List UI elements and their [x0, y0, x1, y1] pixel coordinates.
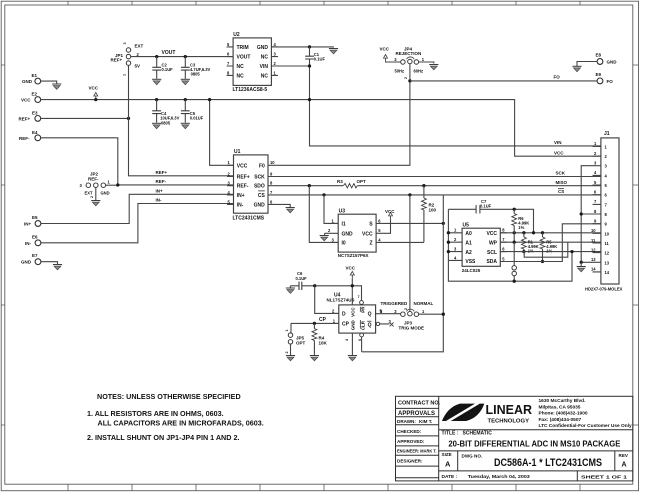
capacitor C7 — [448, 199, 533, 233]
junction WP R6 — [513, 241, 516, 244]
junction VIN VCC rail — [308, 98, 311, 101]
svg-text:0.1UF: 0.1UF — [480, 204, 492, 209]
svg-text:REJECTION: REJECTION — [396, 51, 422, 56]
ground E1 — [52, 84, 61, 89]
svg-text:1: 1 — [123, 74, 127, 76]
svg-text:TRIG MODE: TRIG MODE — [399, 326, 425, 331]
svg-text:2. INSTALL SHUNT ON JP1-JP4 P: 2. INSTALL SHUNT ON JP1-JP4 PIN 1 AND 2. — [87, 433, 239, 442]
junction R6 bottom VCC row — [513, 231, 516, 234]
svg-text:E2: E2 — [32, 91, 38, 96]
op-amp U5 24LC025 — [454, 223, 507, 273]
junction C6 VCC — [351, 284, 354, 287]
svg-text:TECHNOLOGY: TECHNOLOGY — [488, 418, 530, 424]
wire JP3 pin1 to select net — [419, 313, 444, 315]
svg-text:0805: 0805 — [161, 120, 171, 125]
op-amp U1 LTC2431CMS — [227, 149, 281, 222]
wire U4 D pin2 — [315, 286, 339, 314]
junction S select vertical — [442, 222, 445, 225]
svg-text:REV: REV — [619, 453, 629, 458]
wire CP net — [291, 323, 339, 333]
ground JP4 — [429, 65, 438, 70]
junction rail SCL — [570, 250, 573, 253]
junction rail WP header — [513, 280, 516, 283]
svg-text:NC: NC — [261, 54, 269, 60]
svg-text:SCHEMATIC: SCHEMATIC — [463, 430, 493, 436]
wire J1 ground pins 3,8,13 — [581, 166, 592, 263]
svg-text:U1: U1 — [234, 149, 241, 155]
wire E8 to ground — [577, 62, 597, 67]
svg-text:2: 2 — [90, 196, 94, 198]
ground C4 — [152, 123, 161, 128]
junction C2 top — [155, 55, 158, 58]
svg-text:REF+: REF+ — [111, 58, 123, 63]
connector J1 HD2X7-079-MOLEX — [585, 131, 623, 291]
capacitor C6 — [290, 271, 361, 300]
junction E3 JP1 — [127, 117, 130, 120]
terminal E5 — [24, 215, 41, 226]
junction C3 top — [184, 55, 187, 58]
resistor R6 — [512, 209, 529, 242]
junction A2 — [447, 250, 450, 253]
svg-text:A: A — [622, 462, 627, 469]
junction JP3 select — [442, 313, 445, 316]
svg-text:VCC: VCC — [385, 209, 395, 214]
op-amp U3 NC7SZ157P6X — [325, 208, 383, 258]
wire select vertical CS row to JP3/CLR — [362, 195, 444, 351]
svg-text:VCC: VCC — [486, 231, 497, 237]
svg-text:VCC: VCC — [554, 150, 564, 155]
jumper JP3 TRIG MODE — [380, 301, 433, 331]
svg-text:Phone: (408)432-1900: Phone: (408)432-1900 — [539, 411, 588, 417]
svg-text:VCC: VCC — [346, 266, 356, 271]
svg-text:20-BIT DIFFERENTIAL ADC IN MS1: 20-BIT DIFFERENTIAL ADC IN MS10 PACKAGE — [448, 438, 620, 448]
terminal E6 — [25, 235, 41, 246]
wire U3 Z pin4 to R2 — [383, 241, 424, 243]
wire JP3 pin2 to CS — [409, 195, 411, 312]
svg-text:SCK: SCK — [254, 175, 265, 181]
svg-text:0.1UF: 0.1UF — [162, 67, 174, 72]
svg-text:GND: GND — [350, 319, 355, 330]
svg-text:1: 1 — [285, 329, 289, 331]
svg-text:PR: PR — [360, 306, 365, 313]
svg-text:VCC: VCC — [89, 86, 99, 91]
ground U3 pin2 — [320, 233, 329, 241]
ground E7 — [53, 265, 62, 270]
ground E8 — [572, 66, 581, 71]
junction CS to JP3 — [408, 193, 411, 196]
svg-text:50Hz: 50Hz — [395, 68, 405, 73]
svg-text:0.01UF: 0.01UF — [190, 116, 204, 121]
wire U5 address pins vertical — [448, 209, 462, 260]
svg-text:VCC: VCC — [350, 307, 355, 317]
junction J1 pin13 gnd — [580, 261, 583, 264]
svg-text:GND: GND — [254, 202, 266, 208]
svg-text:13: 13 — [605, 260, 610, 265]
svg-text:Tuesday, March 04, 2003: Tuesday, March 04, 2003 — [468, 474, 530, 480]
svg-text:REF-: REF- — [237, 184, 249, 190]
wire E9 FO — [410, 80, 597, 82]
resistor R4 — [312, 323, 328, 355]
ground U1 — [286, 208, 295, 213]
wire SCK net U1 pin9 to J1 pin4 — [281, 176, 601, 178]
svg-text:NC7SZ157P6X: NC7SZ157P6X — [338, 253, 369, 258]
svg-text:REF-: REF- — [19, 136, 30, 141]
junction CP R4 — [313, 322, 316, 325]
capacitor C1 — [305, 47, 325, 66]
svg-text:SCK: SCK — [556, 171, 566, 176]
jumper JP4 REJECTION — [380, 46, 425, 79]
svg-text:FO: FO — [607, 79, 614, 84]
terminal E4 — [19, 130, 41, 141]
terminal E8 — [596, 53, 618, 65]
capacitor C4 — [152, 100, 179, 126]
wire ground rail U5 — [448, 252, 572, 282]
wire CS net U1 pin7 to J1 pin6 — [281, 194, 601, 196]
svg-text:I0: I0 — [342, 241, 346, 247]
svg-text:ALL CAPACITORS ARE IN MICROFAR: ALL CAPACITORS ARE IN MICROFARADS, 0603. — [98, 419, 264, 428]
svg-text:NORMAL: NORMAL — [414, 301, 434, 306]
svg-text:IN-: IN- — [237, 202, 244, 208]
svg-text:OPT: OPT — [296, 340, 306, 345]
svg-text:DWG NO.: DWG NO. — [462, 453, 483, 458]
junction R5 bottom — [541, 260, 544, 263]
svg-text:KIM T.: KIM T. — [419, 419, 432, 424]
svg-text:DESIGNER:: DESIGNER: — [397, 459, 423, 464]
wire U3 S pin6 — [383, 222, 444, 224]
svg-text:E5: E5 — [32, 215, 38, 220]
svg-text:I1: I1 — [342, 222, 346, 228]
svg-text:2: 2 — [404, 308, 408, 310]
svg-text:F0: F0 — [259, 163, 265, 169]
svg-text:GND: GND — [257, 45, 269, 51]
svg-text:LTC2431CMS: LTC2431CMS — [233, 216, 265, 222]
svg-text:Q: Q — [368, 312, 372, 318]
terminal E3 — [19, 110, 41, 121]
svg-text:SHEET 1 OF 1: SHEET 1 OF 1 — [581, 474, 627, 480]
wire U5 SDA pin5 to J1 pin9 — [500, 224, 601, 262]
junction C4 top — [155, 98, 158, 101]
ground C6 — [286, 286, 295, 294]
svg-text:OPT: OPT — [357, 179, 367, 184]
svg-text:VCC: VCC — [362, 232, 373, 238]
svg-text:CLR: CLR — [360, 320, 365, 330]
svg-text:NC: NC — [237, 73, 245, 79]
jumper WP header circles — [512, 242, 517, 281]
svg-text:REF+: REF+ — [237, 175, 250, 181]
capacitor C2 — [152, 57, 173, 79]
svg-text:13: 13 — [591, 257, 596, 262]
svg-text:5V: 5V — [135, 63, 141, 68]
svg-text:NL17SZ74US: NL17SZ74US — [327, 297, 355, 302]
resistor R3 — [337, 179, 366, 188]
svg-text:VIN: VIN — [260, 64, 269, 70]
transistor U4 NL17SZ74US flip-flop — [327, 293, 392, 342]
svg-text:CS: CS — [558, 189, 564, 194]
svg-text:EXT: EXT — [135, 44, 144, 49]
svg-text:IN+: IN+ — [156, 188, 164, 193]
junction MISO R2 — [422, 184, 425, 187]
svg-text:60Hz: 60Hz — [414, 68, 424, 73]
svg-text:CP: CP — [319, 317, 327, 323]
capacitor C5 — [181, 100, 204, 123]
svg-text:REF-: REF- — [88, 176, 99, 181]
svg-text:CP: CP — [342, 322, 350, 328]
junction U1 VCC rail — [208, 98, 211, 101]
svg-text:E9: E9 — [596, 72, 602, 77]
svg-text:VCC: VCC — [380, 47, 390, 52]
wire U1 VCC pin1 — [210, 100, 234, 166]
ground C5 — [181, 123, 190, 128]
svg-text:VSS: VSS — [465, 259, 476, 265]
svg-text:DRAWN:: DRAWN: — [397, 419, 416, 424]
svg-text:LTC Confidential-For Customer: LTC Confidential-For Customer Use Only — [539, 423, 633, 429]
svg-text:IN+: IN+ — [24, 221, 32, 226]
no-connect X on Q-bar — [390, 322, 394, 326]
svg-text:A: A — [445, 460, 451, 469]
svg-text:TRIGGERED: TRIGGERED — [381, 301, 409, 306]
capacitor C3 — [181, 57, 211, 79]
wire U2 VIN pin2 to VIN net — [271, 66, 601, 146]
wire SDO to U3 I0 pin3 — [309, 186, 338, 243]
svg-text:IN-: IN- — [156, 198, 163, 203]
svg-text:12: 12 — [591, 247, 596, 252]
svg-text:24LC025: 24LC025 — [462, 268, 481, 273]
svg-text:IN+: IN+ — [237, 193, 245, 199]
svg-text:GND: GND — [101, 191, 110, 196]
svg-text:0805: 0805 — [191, 72, 201, 77]
wire U5 SCL pin6 to J1 pin12 — [500, 251, 601, 253]
svg-text:1%: 1% — [528, 249, 534, 254]
svg-text:REF+: REF+ — [156, 170, 168, 175]
svg-text:E6: E6 — [32, 235, 38, 240]
svg-text:J1: J1 — [604, 131, 610, 137]
svg-text:A1: A1 — [465, 240, 472, 246]
title block — [396, 396, 633, 481]
op-amp U2 LT1236 — [227, 32, 278, 93]
power VCC — [89, 86, 99, 100]
junction F0 E9 — [408, 79, 411, 82]
svg-text:LT1236ACS8-5: LT1236ACS8-5 — [233, 87, 268, 93]
svg-text:12: 12 — [605, 251, 610, 256]
wire U4 Q to JP3 — [388, 313, 401, 316]
svg-text:E8: E8 — [596, 53, 602, 58]
svg-text:10K: 10K — [319, 340, 328, 345]
junction CS to U3 I1 — [322, 193, 325, 196]
wire JP2 pin2 to ground — [95, 187, 97, 200]
svg-text:REF-: REF- — [156, 179, 167, 184]
ground J1 — [577, 262, 586, 272]
terminal E2 — [21, 91, 41, 102]
svg-text:IN-: IN- — [25, 241, 32, 246]
wire REF+ JP1 to U1 pin2 — [129, 118, 234, 175]
ground JP2 — [91, 201, 100, 206]
wire REF+ from E3 — [41, 117, 129, 119]
svg-text:CONTRACT NO.: CONTRACT NO. — [398, 401, 441, 407]
svg-text:11: 11 — [605, 241, 610, 246]
svg-text:APPROVED:: APPROVED: — [397, 439, 425, 444]
svg-text:11: 11 — [591, 238, 596, 243]
terminal E7 — [21, 253, 41, 265]
svg-text:NC: NC — [237, 64, 245, 70]
terminal E9 — [596, 72, 614, 84]
svg-text:GND: GND — [21, 259, 32, 264]
svg-text:Z: Z — [370, 241, 373, 247]
power VCC U3 pin5 — [383, 209, 396, 234]
svg-text:DC586A-1 * LTC2431CMS: DC586A-1 * LTC2431CMS — [494, 457, 602, 469]
wire JP4 pin3 to VCC — [386, 61, 401, 63]
svg-text:1%: 1% — [546, 249, 552, 254]
address text — [539, 398, 633, 429]
svg-text:WP: WP — [489, 240, 498, 246]
junction JP2 REF- — [116, 183, 119, 186]
wire IN- from E6 to U1 — [41, 204, 234, 243]
wire U1 GND pin6 to ground — [281, 204, 290, 207]
jumper JP5 OPT — [285, 329, 306, 355]
junction VCC symbol — [94, 98, 97, 101]
ground R4 — [310, 356, 319, 361]
svg-text:NC: NC — [261, 73, 269, 79]
ground C2 — [152, 79, 161, 84]
svg-text:MISO: MISO — [556, 180, 568, 185]
ground U4 — [348, 356, 357, 361]
svg-text:SDO: SDO — [254, 184, 265, 190]
logo Linear Technology — [442, 402, 533, 425]
wire U4 GND pin — [351, 333, 353, 355]
junction C1 top — [308, 45, 311, 48]
svg-text:Fax: (408)434-0507: Fax: (408)434-0507 — [539, 417, 582, 423]
svg-text:CS: CS — [258, 193, 266, 199]
jumper JP2 REF- — [80, 172, 111, 198]
wire U5 WP pin7 to J1 pin11 — [500, 241, 601, 243]
svg-text:HD2X7-079-MOLEX: HD2X7-079-MOLEX — [585, 286, 623, 291]
resistor R2 — [422, 186, 437, 243]
wire E1 to ground — [41, 81, 57, 83]
svg-text:Milpitas, CA 95035: Milpitas, CA 95035 — [539, 404, 581, 410]
svg-text:14: 14 — [591, 267, 596, 272]
junction R1 bottom — [522, 250, 525, 253]
title text — [442, 430, 629, 480]
terminal E1 — [22, 73, 41, 84]
svg-text:100: 100 — [429, 208, 437, 213]
wire F0 net JP4 to U1 pin10 — [281, 64, 410, 166]
wire JP2 pin1 to REF- — [105, 184, 117, 186]
svg-text:E4: E4 — [32, 130, 38, 135]
wire VOUT net — [131, 56, 234, 58]
wire CS to U3 I1 pin1 — [324, 195, 338, 224]
wire SDO/MISO net U1 pin8 to J1 pin5 — [281, 185, 601, 187]
svg-text:2: 2 — [404, 77, 408, 79]
wire IN+ from E5 to U1 — [41, 194, 234, 223]
svg-text:U3: U3 — [339, 208, 346, 214]
notes text — [87, 392, 264, 442]
svg-text:GND: GND — [342, 232, 354, 238]
junction A0 — [447, 231, 450, 234]
wire U4 CLR to select net — [361, 337, 363, 352]
svg-text:E7: E7 — [32, 253, 38, 258]
junction C5 top — [184, 98, 187, 101]
svg-text:3: 3 — [123, 42, 127, 44]
svg-text:EXT: EXT — [85, 191, 93, 196]
svg-text:VOUT: VOUT — [237, 54, 251, 60]
svg-text:VCC: VCC — [237, 163, 248, 169]
junction R5 top — [541, 231, 544, 234]
wire REF- from E4 to U1 — [41, 138, 234, 185]
svg-text:2: 2 — [285, 351, 289, 353]
junction A1 — [447, 241, 450, 244]
svg-text:D: D — [342, 312, 346, 318]
svg-text:NOTES: UNLESS OTHERWISE SPECI: NOTES: UNLESS OTHERWISE SPECIFIED — [97, 392, 241, 401]
junction J1 pin8 gnd — [580, 212, 583, 215]
junction C6 D line — [313, 284, 316, 287]
svg-text:14: 14 — [605, 270, 610, 275]
wire WP jog — [524, 242, 568, 257]
ground C3 — [181, 79, 190, 84]
junction SDO to U3 I0 — [308, 184, 311, 187]
svg-text:R3: R3 — [337, 179, 343, 184]
junction R6 top — [513, 208, 516, 211]
wire VCC rail — [41, 100, 601, 157]
svg-text:1%: 1% — [518, 225, 524, 230]
svg-text:VCC: VCC — [21, 98, 31, 103]
svg-text:CHECKED:: CHECKED: — [397, 429, 422, 434]
ground U2 — [329, 49, 338, 54]
svg-text:FO: FO — [554, 75, 561, 80]
svg-text:SDA: SDA — [486, 259, 497, 265]
svg-text:0.1UF: 0.1UF — [296, 276, 308, 281]
svg-text:TRIM: TRIM — [237, 45, 249, 51]
svg-text:REF+: REF+ — [19, 117, 31, 122]
svg-text:SIZE: SIZE — [442, 452, 452, 457]
wire E7 to ground — [41, 262, 58, 264]
resistor R1 — [522, 233, 539, 254]
svg-text:A2: A2 — [465, 250, 472, 256]
wire JP4 pin1 to ground — [419, 62, 434, 64]
svg-text:E1: E1 — [32, 73, 38, 78]
svg-text:SCL: SCL — [487, 250, 497, 256]
svg-text:APPROVALS: APPROVALS — [398, 411, 435, 417]
power VCC U4 — [346, 266, 356, 305]
svg-text:VOUT: VOUT — [162, 50, 176, 56]
svg-text:GND: GND — [607, 60, 618, 65]
svg-text:1. ALL RESISTORS ARE IN OHMS,: 1. ALL RESISTORS ARE IN OHMS, 0603. — [87, 409, 224, 418]
wire U5 VCC pin8 to J1 pin10 — [500, 232, 601, 234]
svg-text:Q: Q — [368, 323, 372, 329]
svg-text:7: 7 — [358, 295, 360, 299]
wire JP1 pin1 down to REF+ row — [128, 65, 130, 118]
junction C7 right — [532, 231, 535, 234]
svg-text:TITLE :: TITLE : — [442, 430, 459, 436]
ground JP5 — [286, 356, 295, 361]
svg-text:ENGINEER: MARK T.: ENGINEER: MARK T. — [397, 449, 437, 454]
svg-text:U2: U2 — [233, 32, 240, 38]
wire U2 GND pin4 — [271, 46, 333, 49]
resistor R5 — [540, 233, 557, 262]
svg-text:VIN: VIN — [554, 140, 562, 145]
junction VIN C1 — [308, 64, 311, 67]
junction R1 top — [522, 231, 525, 234]
svg-text:LINEAR: LINEAR — [486, 402, 533, 417]
label CS J1 — [558, 189, 564, 195]
svg-text:10: 10 — [270, 160, 275, 165]
svg-text:1630 McCarthy Blvd.: 1630 McCarthy Blvd. — [539, 398, 586, 404]
svg-text:GND: GND — [22, 79, 33, 84]
svg-text:A0: A0 — [465, 231, 472, 237]
svg-text:E3: E3 — [32, 110, 38, 115]
svg-text:DATE :: DATE : — [442, 474, 458, 480]
svg-text:0.1UF: 0.1UF — [314, 56, 326, 61]
jumper JP1 REF+ select — [111, 42, 144, 76]
svg-text:10: 10 — [605, 231, 610, 236]
